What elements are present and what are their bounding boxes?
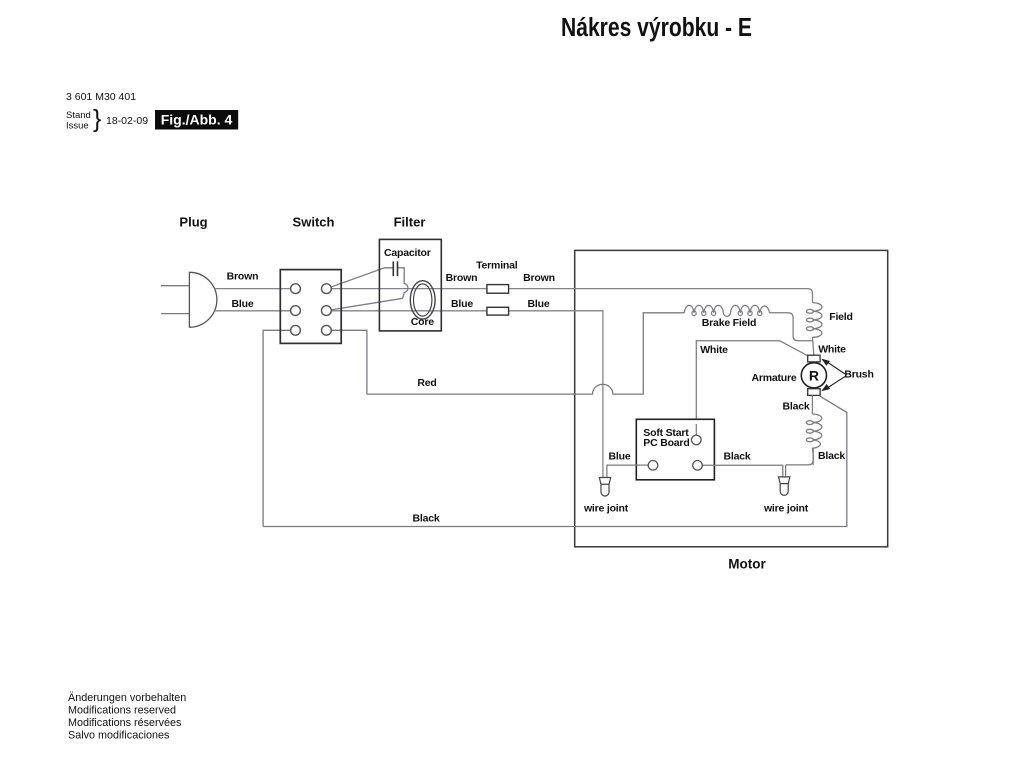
svg-text:3 601 M30 401: 3 601 M30 401 [66,91,136,103]
svg-text:Salvo modificaciones: Salvo modificaciones [68,730,170,742]
svg-text:Modifications réservées: Modifications réservées [68,717,182,729]
contact top-left [291,284,301,294]
armature circle with R [801,363,826,388]
switch box [280,270,341,344]
svg-text:Black: Black [723,451,750,463]
wire blue: wire joint to board [607,465,653,477]
wire blue: plug to switch left contact [215,310,296,312]
plug lead top [161,285,189,287]
wire white stub inside board [695,424,697,440]
brush arrow lower [827,377,846,389]
svg-text:Armature: Armature [751,372,796,384]
svg-text:Core: Core [411,316,434,328]
svg-text:Brake Field: Brake Field [702,317,756,329]
field coil [806,303,822,356]
capacitor C plates [393,261,397,276]
wire brown: switch to field coil (through terminal and core) [326,289,812,303]
wire: switch bottom-right contact right then down to red [326,330,367,394]
svg-text:Black: Black [782,400,809,412]
svg-text:Issue: Issue [66,121,89,132]
svg-text:Blue: Blue [609,451,631,463]
svg-text:18-02-09: 18-02-09 [106,115,148,127]
motor box [575,250,888,546]
svg-text:Blue: Blue [451,298,473,310]
lower field coil (black) [806,414,822,465]
switch contact circles [291,284,332,335]
svg-text:R: R [809,367,819,383]
capacitor left lead from switch top-right contact [326,268,392,289]
svg-text:Motor: Motor [728,557,766,572]
footer notes [68,692,186,742]
terminal fuse bottom [487,307,509,315]
wire red: to brake field, hop over blue vertical [367,313,684,394]
svg-text:Capacitor: Capacitor [384,247,431,259]
filter box [379,239,441,331]
wire: lower brush to lower coil [811,395,813,414]
wire joint left [599,478,610,497]
svg-text:}: } [93,105,101,133]
svg-text:Black: Black [412,513,439,525]
svg-text:Modifications reserved: Modifications reserved [68,705,176,717]
core outer ellipse [410,281,435,319]
plug body [189,272,216,327]
contact top-right [322,284,332,294]
wire black: board to lower coil bottom, with joint drop [698,448,814,477]
brush arrow upper [827,362,846,375]
board circle bottom-right [693,461,703,471]
core inner ellipse [414,284,432,316]
contact mid-right [322,306,332,316]
brake field coil [684,305,769,316]
terminal fuse top [487,285,509,294]
svg-text:Brown: Brown [446,272,478,284]
Fig./Abb. 4 box [155,110,238,130]
svg-text:White: White [700,344,728,356]
plug lead bottom [161,313,189,315]
svg-text:Änderungen vorbehalten: Änderungen vorbehalten [68,692,186,704]
wire brown: plug to switch left contact [215,288,296,290]
soft start pc board [636,419,714,480]
svg-text:wire joint: wire joint [583,503,629,515]
board circle bottom-left [648,461,658,471]
contact mid-left [291,306,301,316]
wire: brake field right end down to field bottom node [769,313,812,341]
svg-text:wire joint: wire joint [763,503,809,515]
wire joint right [779,477,790,496]
wire black: long bottom run and up to lower brush [263,396,847,526]
svg-text:Blue: Blue [528,298,550,310]
capacitor right lead with hop over brown wire, to switch mid-right contact [326,268,408,311]
upper brush [808,355,820,362]
lower brush [808,389,820,396]
contact bot-left [291,325,301,335]
svg-text:Fig./Abb. 4: Fig./Abb. 4 [161,112,233,128]
svg-text:Terminal: Terminal [476,260,518,272]
svg-text:Brown: Brown [227,271,259,283]
wire blue: switch through terminal into motor box, down to wire joint [326,311,603,478]
svg-text:Stand: Stand [66,110,91,121]
svg-text:Black: Black [818,450,845,462]
svg-text:Plug: Plug [179,215,207,230]
svg-text:Filter: Filter [394,215,426,230]
board circle top-right [692,435,702,445]
svg-text:Brown: Brown [523,272,555,284]
contact bot-right [322,325,332,335]
svg-text:Field: Field [829,311,853,323]
svg-text:Brush: Brush [844,368,873,380]
svg-text:Switch: Switch [293,215,335,230]
svg-text:PC Board: PC Board [643,437,689,449]
wire: switch bottom-left contact left then down (black start) [263,330,295,526]
svg-text:White: White [818,344,846,356]
svg-text:Red: Red [417,377,436,389]
wire white: from soft-start board up and diagonal to upper brush [696,341,808,440]
svg-text:Blue: Blue [232,298,254,310]
svg-text:Nákres výrobku - E: Nákres výrobku - E [561,14,752,42]
